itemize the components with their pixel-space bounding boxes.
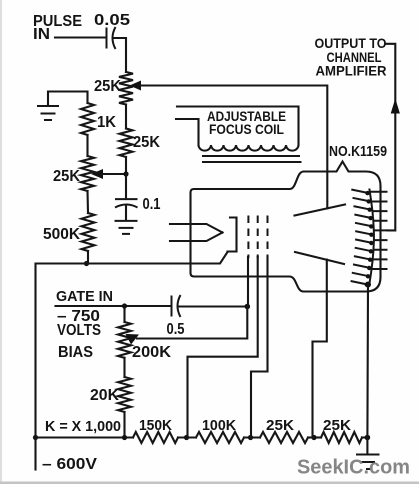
wire grid g2 down to bus — [188, 257, 258, 438]
resistor R4 25K — [120, 129, 161, 158]
wire to ground G3 — [366, 438, 368, 455]
dynode ladder rungs — [370, 192, 388, 269]
svg-text:100K: 100K — [202, 417, 236, 434]
scan edge shading bottom — [0, 482, 419, 484]
wire bus segment — [308, 436, 321, 438]
capacitor C3 0.5 — [167, 295, 185, 338]
wire grid g3 down to bus — [251, 257, 268, 438]
deflection plate upper — [295, 205, 346, 216]
focus coil L1 lower lead — [176, 119, 199, 145]
ground G1 — [37, 106, 59, 120]
wire 200K top lead — [123, 306, 125, 322]
node A junction — [123, 171, 128, 176]
svg-text:25K: 25K — [133, 134, 160, 151]
output arrowhead — [391, 99, 400, 114]
node bus-left junction — [33, 435, 38, 440]
focus coil L1 winding scallops — [199, 145, 299, 151]
focus coil core bar 2 — [202, 161, 302, 163]
svg-text:20K: 20K — [90, 387, 119, 404]
electron gun cathode stub upper — [170, 224, 223, 233]
wire R2 to R3 — [86, 135, 88, 156]
node bus/dynode3 junction — [248, 435, 253, 440]
node B junction — [84, 261, 89, 266]
node gate/200K junction — [122, 303, 127, 308]
node bus/cathode junction — [365, 435, 371, 441]
svg-text:25K: 25K — [323, 417, 351, 434]
wire bottom bus — [36, 436, 134, 438]
dynode fins — [351, 190, 373, 285]
focus coil core bar 1 — [202, 155, 300, 157]
ground G3 — [356, 455, 380, 470]
resistor R8 150K — [133, 417, 178, 443]
wire node B bus to tube electrode and left rail — [36, 252, 228, 438]
svg-text:BIAS: BIAS — [58, 344, 93, 361]
svg-text:150K: 150K — [139, 417, 172, 434]
wire pulse-in to C1 — [55, 36, 105, 38]
svg-text:VOLTS: VOLTS — [57, 322, 101, 339]
wire gate-in line — [56, 305, 171, 307]
grid g2 dashed — [257, 216, 259, 259]
resistor R11 25K — [321, 417, 362, 443]
wire lower plate tap to bus — [313, 260, 327, 438]
svg-text:25K: 25K — [94, 78, 121, 95]
capacitor C2 0.1 — [115, 196, 161, 213]
wiper arrow of R3 — [91, 169, 103, 179]
ground G2 — [115, 221, 138, 234]
wire grid g1 down to gate node — [247, 257, 249, 307]
wire R3 wiper to node A — [101, 173, 126, 175]
wire R3 to R5 — [86, 191, 89, 213]
node bus/plate-tap junction — [311, 435, 316, 440]
svg-text:FOCUS COIL: FOCUS COIL — [209, 121, 284, 137]
wire bus to ground — [362, 436, 367, 438]
svg-text:K = X 1,000: K = X 1,000 — [45, 418, 121, 435]
node grid-1 junction — [245, 304, 251, 310]
potentiometer R6 200K — [118, 322, 171, 361]
capacitor C1 0.05 — [94, 12, 130, 49]
wire 200K to 20K — [123, 358, 125, 377]
potentiometer R3 25K — [53, 156, 94, 191]
wire R7 to bus — [123, 412, 125, 438]
wire node A to C2 — [125, 174, 127, 199]
wire -600V stub — [34, 438, 36, 470]
wire R1 wiper to focus tap (top plate) — [139, 86, 327, 209]
node bus/20K junction — [122, 435, 127, 440]
svg-text:25K: 25K — [266, 417, 294, 434]
svg-text:25K: 25K — [53, 168, 80, 185]
wire last dynode to bus ground node — [366, 285, 369, 438]
svg-text:AMPLIFIER: AMPLIFIER — [316, 63, 387, 79]
wire C3 to grid-1 node — [180, 305, 248, 307]
dynode dots — [365, 191, 374, 287]
resistor R2 1K — [81, 103, 116, 135]
svg-text:0.1: 0.1 — [143, 196, 161, 213]
svg-text:NO.K1159: NO.K1159 — [329, 143, 387, 160]
wire R4 to node A — [125, 157, 127, 174]
svg-text:– 600V: – 600V — [42, 456, 97, 473]
focusing electrode bracket — [228, 218, 237, 252]
svg-text:0.5: 0.5 — [167, 321, 185, 338]
resistor R10 25K — [260, 417, 308, 443]
focus coil L1 box outline with top lead — [177, 107, 299, 146]
electron gun cathode stub lower — [170, 233, 223, 242]
grid g3 dashed — [267, 216, 269, 259]
scan edge shading left — [0, 0, 2, 484]
node bus/dynode2 junction — [184, 435, 189, 440]
wire R5 to node B — [87, 251, 89, 264]
svg-text:IN: IN — [33, 26, 50, 43]
wire top ground branch — [48, 92, 88, 106]
grid g1 dashed — [247, 216, 249, 259]
resistor R5 500K — [43, 213, 95, 251]
wire bus segment — [178, 436, 196, 438]
deflection plate lower — [295, 252, 344, 264]
svg-text:500K: 500K — [43, 226, 80, 243]
svg-text:GATE IN: GATE IN — [56, 288, 113, 305]
tube V1 envelope — [191, 162, 381, 292]
wire C1 to R1 top — [115, 38, 127, 72]
resistor R9 100K — [196, 417, 244, 443]
wiper arrow of R1 — [130, 81, 142, 91]
wire output anode line — [387, 44, 396, 231]
potentiometer R1 25K (pulse gain) — [94, 72, 133, 105]
svg-text:1K: 1K — [97, 114, 116, 131]
wire R1 to R4 — [125, 105, 127, 129]
node last dynode junction — [365, 282, 371, 288]
svg-text:SeekIC.com: SeekIC.com — [297, 457, 410, 479]
svg-text:0.05: 0.05 — [94, 12, 130, 29]
resistor R7 20K — [90, 377, 131, 412]
dynode rail — [369, 189, 374, 285]
wire R6 wiper to grid-1 drop — [137, 307, 247, 339]
wire bus segment — [244, 436, 260, 438]
wire C2 to ground G2 — [125, 207, 127, 221]
wiper arrow of R6 — [126, 334, 140, 345]
svg-text:200K: 200K — [132, 344, 171, 361]
